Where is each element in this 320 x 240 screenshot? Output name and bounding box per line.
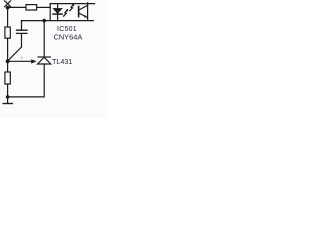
wire R-lower to ground node bbox=[7, 84, 9, 97]
wire ground node to ground symbol bbox=[7, 97, 9, 103]
resistor R-top (horizontal) bbox=[26, 5, 37, 10]
light arrow 2 bbox=[70, 5, 74, 11]
optocoupler inner right vertical bbox=[87, 3, 89, 21]
light arrow 1 bbox=[64, 10, 68, 16]
wire bottom cathode rail bbox=[22, 20, 94, 22]
capacitor C plates bbox=[17, 30, 28, 33]
LED cathode bar bbox=[53, 13, 62, 15]
resistor R-upper (vertical) bbox=[5, 27, 10, 38]
reference arrowhead bbox=[31, 59, 36, 63]
phototransistor emitter bbox=[79, 13, 87, 18]
LED cathode stub bbox=[57, 15, 59, 21]
capacitor C bottom stub bbox=[21, 34, 23, 47]
wire ref node down to R-lower bbox=[7, 61, 9, 72]
wire top from node A to resistor R-top bbox=[8, 6, 26, 8]
junction dot D (ground node) bbox=[6, 95, 10, 99]
node input terminal X bbox=[5, 1, 11, 7]
junction dot B on cathode rail bbox=[42, 19, 46, 23]
phototransistor collector bbox=[79, 5, 88, 10]
LED anode stub bbox=[57, 4, 59, 9]
svg-text:CNY64A: CNY64A bbox=[54, 32, 83, 41]
wire resistor to optocoupler bbox=[37, 6, 51, 8]
TL431 anode wire down and left to ground rail bbox=[8, 64, 45, 97]
optocoupler box top edge bbox=[50, 3, 94, 5]
TL431 reference line bbox=[8, 60, 32, 62]
phototransistor base bar bbox=[78, 7, 80, 17]
capacitor C stub top corner bbox=[21, 21, 23, 30]
junction dot A bbox=[6, 6, 10, 10]
speck near ref line bbox=[21, 57, 23, 59]
LED D (filled triangle) bbox=[53, 8, 62, 13]
wire dot B down to TL431 cathode bbox=[43, 21, 45, 57]
wire diagonal from capacitor to ref node bbox=[8, 47, 22, 61]
TL431 cathode bar bbox=[38, 56, 50, 58]
wire left branch down from node A bbox=[7, 8, 9, 27]
junction dot C (ref node) bbox=[6, 59, 10, 63]
resistor R-lower (vertical) bbox=[5, 72, 10, 84]
wire to ref node bbox=[7, 38, 9, 61]
emitter arrowhead bbox=[84, 15, 87, 17]
svg-text:TL431: TL431 bbox=[52, 57, 72, 66]
ground bbox=[3, 103, 12, 105]
TL431 triangle bbox=[38, 57, 51, 64]
optocoupler U box left edge bbox=[49, 4, 51, 21]
